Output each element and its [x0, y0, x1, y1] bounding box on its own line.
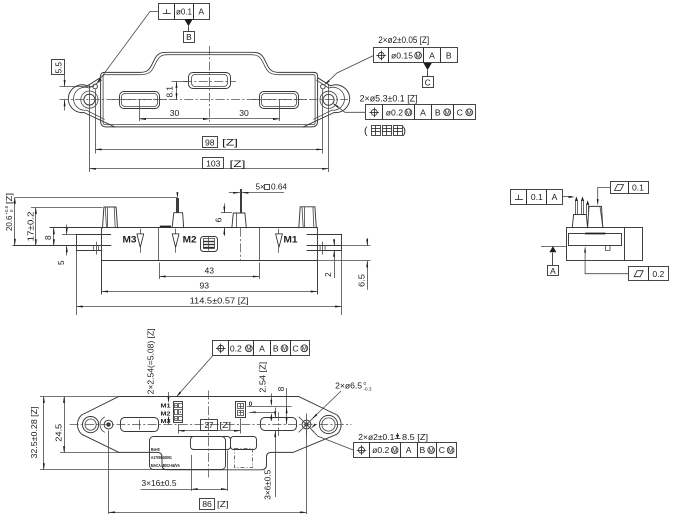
svg-text:C: C: [457, 107, 463, 117]
top view: top middle slot: [189, 73, 231, 89]
top view: right mounting ear: [303, 78, 349, 127]
svg-text:0: 0: [364, 381, 367, 386]
FCF perpendicularity ø0.1 A (top left): [159, 4, 175, 20]
leader from position FCF to right pin hole: [325, 56, 373, 85]
end view: signal pins: [575, 200, 577, 214]
front view: auxiliary pin tower (centre): [232, 213, 246, 228]
svg-text:A: A: [406, 445, 412, 455]
leader from flatness 0.1 to tower top: [598, 188, 610, 202]
end view: divider line: [624, 228, 626, 261]
svg-text:ø0.2: ø0.2: [386, 107, 403, 117]
front view: M3 terminal tower: [103, 207, 118, 228]
svg-text:2×ø5.3±0.1 [Z]: 2×ø5.3±0.1 [Z]: [360, 93, 418, 103]
svg-text:[Z]: [Z]: [5, 193, 14, 204]
end view: FCF perpendicularity 0.1 A: [511, 190, 527, 205]
front view: interior vertical edges: [158, 228, 160, 261]
svg-text:A: A: [198, 7, 204, 17]
front view: left press-nut symbol: [94, 245, 99, 250]
svg-text:M2: M2: [161, 411, 171, 417]
bottom view: right ear counterbore: [319, 415, 337, 433]
FCF position ø0.2 M | A | BM | CM: [366, 105, 383, 120]
front view: aux pin centerline: [240, 228, 242, 261]
svg-text:27: 27: [204, 421, 214, 430]
svg-text:30: 30: [239, 108, 249, 118]
svg-text:A: A: [552, 192, 558, 202]
svg-text:M2: M2: [183, 234, 197, 244]
svg-text:B: B: [419, 445, 425, 455]
bottom view: right ear: [293, 396, 341, 452]
svg-text:0.2: 0.2: [230, 343, 242, 353]
svg-text:M: M: [448, 447, 453, 454]
dimension 98 [Z]: [95, 149, 323, 151]
front view: seam line right: [307, 245, 342, 247]
dimension 103 [Z]: [89, 168, 328, 170]
svg-text:5×: 5×: [256, 183, 265, 192]
svg-text:RoHS: RoHS: [151, 447, 161, 453]
bottom view: left ear counterbore ø6.5: [83, 417, 99, 433]
dimension 8.1 (slot offset): [172, 81, 190, 83]
FCF position ø0.15 M | A | B: [374, 48, 389, 63]
svg-text:B: B: [446, 51, 452, 61]
bottom view: left alignment pin hole ø2 depth 8.5: [104, 420, 113, 429]
top view: left pin hole ø2: [93, 84, 98, 89]
front view: right press-nut symbol: [320, 245, 325, 250]
svg-text:ø0.15: ø0.15: [391, 51, 413, 61]
svg-text:43: 43: [205, 266, 215, 276]
end view: FCF flatness 0.2: [629, 267, 649, 281]
svg-text:20.6: 20.6: [5, 216, 14, 232]
leader from FCF to left pin hole: [98, 12, 159, 83]
svg-text:3×6±0.5: 3×6±0.5: [264, 469, 273, 499]
extension lines for 98 and 103 dims: [89, 85, 91, 172]
top view: inner contour line (draft edge): [105, 55, 314, 75]
front view: thick slot edge near M2: [160, 226, 171, 228]
front view: M1 terminal tower: [299, 207, 317, 228]
svg-text:17±0.2: 17±0.2: [26, 211, 35, 242]
svg-text:30: 30: [170, 108, 180, 118]
bottom view: right alignment pin hole with cross: [302, 420, 311, 429]
svg-text:2×2.54(=5.08) [Z]: 2×2.54(=5.08) [Z]: [147, 328, 156, 394]
svg-text:8.1: 8.1: [166, 86, 175, 98]
bottom view: right slot: [261, 418, 297, 431]
svg-text:24.5: 24.5: [54, 423, 63, 442]
svg-text:2: 2: [324, 272, 333, 277]
svg-text:[Z]: [Z]: [220, 420, 232, 430]
dimension 114.5±0.57 [Z]: [76, 306, 341, 308]
dimension 6 (aux tower height): [221, 212, 232, 214]
top view: right pin hole ø2: [321, 84, 326, 89]
svg-text:86: 86: [202, 499, 212, 509]
svg-text:B: B: [273, 343, 279, 353]
leader from flatness 0.2 to recess bottom: [585, 250, 629, 274]
svg-text:C: C: [425, 77, 431, 87]
front view: left step edge / 93 extension: [101, 228, 103, 294]
svg-text:98: 98: [205, 137, 215, 147]
svg-text:[Z]: [Z]: [230, 159, 246, 169]
end view: body: [567, 228, 643, 261]
top view: slot centerlines: [139, 100, 141, 121]
dimension 30 right: [210, 118, 280, 120]
front view: extension of left edge for 114.5 dim: [76, 250, 78, 315]
svg-text:8.5 [Z]: 8.5 [Z]: [402, 432, 428, 442]
dimension 86 [Z]: [108, 431, 110, 515]
bottom view: middle moulded recesses: [191, 437, 231, 450]
end view: FCF flatness 0.1: [611, 182, 629, 194]
svg-text:M: M: [416, 53, 421, 60]
front view: seam line left: [13, 245, 111, 247]
front view: extension of right edge for 114.5 dim: [341, 250, 343, 315]
dimension 2 (right step): [334, 240, 336, 246]
front view: M2 terminal tower with pin: [172, 213, 184, 228]
dimension 5 (vertical): [62, 234, 76, 236]
bottom view: left ear: [77, 396, 119, 452]
svg-text:A: A: [420, 107, 426, 117]
svg-text:M: M: [445, 110, 450, 117]
top view: right ear hole ø5.3 with bushing: [323, 94, 334, 105]
svg-text:5.5: 5.5: [55, 62, 64, 74]
end view: dark segment on recess top: [585, 233, 605, 235]
svg-text:A: A: [429, 51, 435, 61]
top view: right terminal slot: [260, 92, 299, 109]
svg-text:M: M: [467, 110, 472, 117]
svg-text:M1: M1: [284, 235, 298, 245]
datum C flag: [423, 63, 431, 70]
dimension 32.5±0.28 [Z] (vertical): [40, 396, 119, 398]
svg-text:0.64: 0.64: [271, 183, 288, 192]
datum B flag: [184, 19, 192, 26]
svg-text:(: (: [364, 125, 368, 137]
front view: left mounting tab: [76, 234, 110, 236]
leader from FCF to signal connector: [178, 356, 213, 396]
svg-text:6: 6: [214, 217, 223, 222]
front view: right mounting tab: [307, 234, 342, 236]
svg-text:M: M: [246, 346, 251, 353]
top view: left mounting ear: [68, 78, 114, 127]
svg-text:8: 8: [277, 386, 286, 391]
svg-text:M: M: [392, 447, 397, 454]
svg-text:2×ø2±0.05 [Z]: 2×ø2±0.05 [Z]: [378, 35, 429, 45]
svg-text:0.2: 0.2: [652, 269, 664, 279]
end view: recess: [569, 234, 622, 246]
svg-text:MACA. 8002-66/VA: MACA. 8002-66/VA: [151, 463, 180, 469]
dimension 24.5 (vertical): [60, 452, 119, 454]
top view: left ear hole ø5.3 with bushing: [84, 94, 95, 105]
svg-text:C: C: [439, 445, 445, 455]
svg-text:A: A: [550, 266, 556, 276]
svg-text:32.5±0.28 [Z]: 32.5±0.28 [Z]: [30, 407, 39, 459]
svg-text:114.5±0.57 [Z]: 114.5±0.57 [Z]: [190, 296, 249, 306]
svg-text:M1: M1: [161, 404, 171, 410]
dimension 8 (vertical): [53, 228, 55, 246]
svg-text:5: 5: [57, 260, 66, 265]
svg-text:2×ø2±0.1: 2×ø2±0.1: [358, 432, 394, 442]
dimension 5.5 boxed: [52, 60, 65, 75]
front view: bottom edge: [101, 260, 317, 262]
top view: body outline (outer): [104, 52, 314, 72]
svg-text:2×ø6.5: 2×ø6.5: [335, 380, 362, 390]
svg-text:M: M: [406, 110, 411, 117]
svg-text:M3: M3: [123, 234, 137, 244]
svg-text:A1709040091: A1709040091: [151, 455, 172, 461]
dimension 43: [159, 263, 161, 280]
front view: top face line: [50, 227, 317, 229]
svg-text:3×16±0.5: 3×16±0.5: [142, 478, 177, 488]
dimension 6.5 (right of front view): [342, 245, 371, 247]
end view: left pin tower: [572, 215, 587, 228]
svg-text:6.5: 6.5: [357, 274, 366, 287]
top view: horizontal centerline: [60, 99, 349, 101]
svg-text:M: M: [302, 346, 307, 353]
svg-text:0.1: 0.1: [632, 183, 644, 193]
svg-text:ø0.1: ø0.1: [176, 7, 192, 16]
bottom view: left slot: [121, 418, 159, 432]
bottom view: product label: [150, 437, 226, 470]
bottom view: signal connector 2x3: [174, 402, 183, 423]
dimension 17±0.2 (vertical): [31, 207, 103, 209]
svg-text:C: C: [292, 343, 298, 353]
dimension 93: [101, 291, 317, 293]
bottom view: centerlines: [70, 424, 352, 426]
top view: left terminal slot: [120, 92, 160, 109]
end view: bottom notch: [606, 246, 611, 251]
front view: marking label icon: [201, 237, 218, 252]
svg-text:A: A: [259, 343, 265, 353]
svg-text:M: M: [429, 447, 434, 454]
dimension 30 left: [140, 118, 210, 120]
bottom view: outline bottom edge with bulge: [119, 452, 293, 469]
bottom view: laser marking zone (dashed): [235, 449, 253, 468]
svg-text:-0.3: -0.3: [364, 387, 372, 392]
label M1 with arrow: [278, 229, 280, 234]
leader from ø5.3 FCF to right ear hole: [334, 104, 366, 113]
end view: right pin tower: [588, 206, 603, 227]
front view: right step edge / 93 extension: [317, 228, 319, 294]
svg-text:8: 8: [44, 235, 53, 240]
svg-text:0.1: 0.1: [531, 192, 543, 202]
svg-text:B: B: [435, 107, 441, 117]
top view: vertical centerline: [209, 46, 211, 122]
svg-text:ø0.2: ø0.2: [372, 445, 389, 455]
FCF position 0.2 M A BM CM (bottom view): [213, 341, 229, 356]
svg-text:[Z]: [Z]: [217, 499, 229, 509]
top view: body outline left edge: [101, 72, 104, 76]
leader to pins: [562, 196, 572, 198]
svg-text:[Z]: [Z]: [222, 138, 238, 148]
svg-text:2.54 [Z]: 2.54 [Z]: [258, 362, 267, 393]
label M2 with arrow: [175, 229, 177, 234]
svg-text:M: M: [282, 346, 287, 353]
dimension 20.6 +0.8/0 [Z] (left, vertical): [15, 197, 178, 199]
top view: body outline right edge and bottom: [101, 72, 318, 127]
bottom view: aux connector 1x2: [236, 402, 246, 418]
svg-text:B: B: [186, 32, 192, 42]
leader from ø2 FCF to right pin hole: [312, 430, 353, 450]
svg-text:103: 103: [206, 159, 221, 169]
svg-text:93: 93: [200, 281, 210, 291]
svg-text:): ): [403, 125, 407, 137]
datum A flag: [541, 246, 567, 248]
bottom view: outline top edge: [119, 396, 299, 398]
dimension 27 [Z]: [178, 424, 180, 434]
